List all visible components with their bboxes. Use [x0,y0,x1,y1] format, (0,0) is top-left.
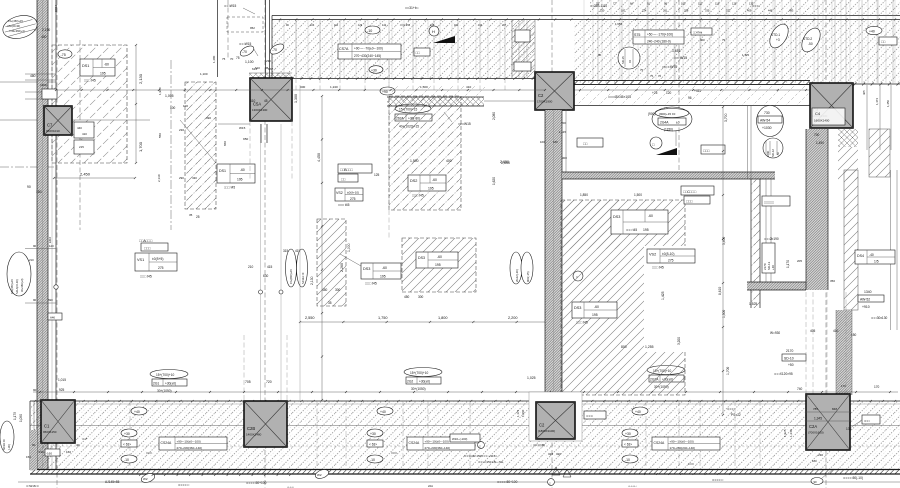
svg-text:130: 130 [846,427,852,431]
leader strip C to DS3 [340,254,361,266]
box W16 [450,434,480,442]
svg-text:300: 300 [418,295,424,299]
svg-text:15+(450)+15: 15+(450)+15 [10,279,14,294]
svg-text:100: 100 [183,104,188,108]
centerline grid X1 [56,0,58,488]
vertical strip B hatch [185,82,216,209]
svg-text:1,325: 1,325 [742,53,749,57]
ellipse -70 a [239,44,256,58]
label box parking A [141,243,168,251]
svg-text:90: 90 [27,185,31,189]
circle SD-12 [763,138,783,158]
svg-text:2G12(-30): 2G12(-30) [515,269,519,282]
svg-text:C7: C7 [47,123,53,128]
svg-text:1,800: 1,800 [438,316,448,320]
svg-text:1,240: 1,240 [789,429,793,437]
svg-text:□□□□: □□□□ [752,4,760,8]
C5A edge projections [249,121,251,180]
svg-text:1/5: 1/5 [874,260,879,264]
column C2B [244,401,287,447]
svg-text:190: 190 [39,450,44,454]
svg-text:2,450: 2,450 [80,172,91,177]
svg-text:+90: +90 [382,90,388,94]
svg-text:AW-54: AW-54 [760,119,770,123]
svg-text:2G4A: 2G4A [660,121,669,125]
cluster 2G12 left of wall [510,252,522,284]
svg-text:195: 195 [592,313,598,317]
svg-text:195: 195 [100,72,106,76]
top band bottom edge left [272,78,535,80]
svg-text:613: 613 [252,67,257,71]
label box parking C [684,196,710,204]
top band hatch above right [590,0,900,15]
wall tick dims left [25,248,56,250]
svg-text:□□□ t45: □□□ t45 [84,79,96,83]
svg-text:126: 126 [732,2,737,6]
table DS3d [572,302,617,318]
svg-text:+40: +40 [771,265,775,270]
svg-text:VS2: VS2 [336,191,343,195]
top band bottom edge mid [574,80,810,82]
table DS3 mid-inner [416,252,458,268]
svg-text:150: 150 [600,9,605,13]
svg-text:□□25S-1110: □□25S-1110 [590,4,607,8]
svg-text:75: 75 [722,38,726,42]
table DS3 left [361,263,401,279]
svg-text:76: 76 [658,74,662,78]
svg-text:±0(δ+5): ±0(δ+5) [152,257,163,261]
table VS1 [135,253,177,271]
svg-text:2,190: 2,190 [42,28,50,32]
svg-text:270~230(360~140): 270~230(360~140) [177,446,203,450]
svg-text:1,175: 1,175 [13,412,17,420]
svg-text:40: 40 [76,443,80,447]
svg-text:STD-1: STD-1 [771,33,780,37]
box fujo [862,415,880,424]
hatch patch right upper [869,129,890,177]
svg-text:848: 848 [832,407,837,411]
svg-text:□□□ t=150 15L~70L: □□□ t=150 15L~70L [478,460,504,464]
ellipse +40 band [632,407,648,415]
svg-text:□A1(±0-30): □A1(±0-30) [7,24,20,28]
ellipse SD-15 [618,47,640,69]
svg-text:275: 275 [350,197,356,201]
svg-text:119: 119 [715,2,720,6]
svg-text:180: 180 [553,140,558,144]
svg-text:□□□ t45: □□□ t45 [140,275,152,279]
svg-text:+40: +40 [380,410,386,414]
svg-text:430: 430 [192,176,197,180]
left edge stamp 2 [7,252,31,296]
svg-text:275: 275 [158,266,164,270]
circle a-mid [573,271,583,281]
svg-text:270~430(240~145): 270~430(240~145) [354,54,381,58]
svg-text:950X1150: 950X1150 [43,430,57,434]
dashed detail rect [227,17,263,32]
svg-text:□□□ t45: □□□ t45 [626,228,637,232]
table CS24A right [652,437,720,450]
svg-text:483: 483 [789,9,794,13]
svg-text:□□□□□50(-10): □□□□□50(-10) [843,476,863,480]
svg-text:AW-52: AW-52 [860,298,870,302]
204A stem [675,131,677,146]
svg-text:1,170: 1,170 [786,260,790,268]
svg-text:C2: C2 [538,93,544,98]
svg-text:1,345: 1,345 [814,417,822,421]
svg-text:CS24A: CS24A [161,441,172,445]
svg-text:96: 96 [598,53,602,57]
svg-text:< 63>: < 63> [123,443,131,447]
svg-text:W15: W15 [239,126,246,130]
svg-text:120: 120 [49,244,54,248]
svg-text:+40: +40 [635,410,641,414]
svg-text:70: 70 [230,57,234,61]
svg-text:±0(δ+10): ±0(δ+10) [347,191,359,195]
svg-text:W16~(-100): W16~(-100) [452,437,467,441]
svg-text:390: 390 [206,116,211,120]
svg-text:□□□ t45: □□□ t45 [576,321,588,325]
svg-text:□□□: □□□ [144,247,151,251]
svg-text:±0: ±0 [628,60,632,63]
svg-text:-60: -60 [382,266,387,270]
grid dashed x679 [678,0,680,179]
svg-text:±0(δ-10): ±0(δ-10) [662,252,674,256]
svg-text:CS7A: CS7A [339,47,349,51]
bottom band inner line [30,445,900,447]
svg-text:446: 446 [768,9,773,13]
svg-text:261: 261 [663,9,668,13]
box shared toilet [762,196,790,206]
svg-text:181: 181 [454,24,459,27]
svg-text:900(-15): 900(-15) [526,271,530,282]
svg-text:75: 75 [640,68,644,72]
svg-text:45: 45 [264,99,268,103]
left edge stamp 3 [0,421,14,453]
column C1 [41,400,75,443]
top band bottom edge right [853,83,900,85]
bottom band hatch [30,401,900,469]
centerline X3 (C2) [551,0,553,488]
svg-text:1,373: 1,373 [875,98,879,105]
svg-text:1,850: 1,850 [580,193,588,197]
svg-text:1,300: 1,300 [294,94,298,103]
svg-text:DS2: DS2 [410,179,417,183]
svg-text:410: 410 [833,329,839,333]
svg-text:15+(800)+15: 15+(800)+15 [289,269,293,284]
svg-text:30+(1050): 30+(1050) [411,387,426,391]
svg-text:□□□□W75: □□□□W75 [662,65,677,69]
bottom band top line [30,400,900,402]
svg-text:415: 415 [267,265,273,269]
svg-text:□□□□□○: □□□□□○ [712,478,724,482]
svg-text:195: 195 [435,263,441,267]
svg-text:□□□2b190: □□□2b190 [764,237,779,241]
svg-text:180: 180 [36,190,42,194]
C2B edge projections [243,335,245,401]
ellipse +30 band [367,429,383,437]
svg-text:705: 705 [245,380,251,384]
ellipse STD-1 [766,21,792,51]
svg-text:950: 950 [243,137,248,141]
svg-text:210: 210 [29,258,34,262]
svg-text:590: 590 [48,298,53,302]
svg-text:240~240 (180-0): 240~240 (180-0) [647,40,671,44]
svg-text:230: 230 [818,453,823,457]
svg-text:W2: W2 [143,477,148,481]
label box sharo [338,174,358,182]
svg-text:C1: C1 [44,424,50,429]
svg-text:270~230(360~140): 270~230(360~140) [425,446,451,450]
svg-text:1,650: 1,650 [615,22,622,26]
svg-text:550: 550 [158,133,162,138]
ellipse -10 [365,26,380,34]
svg-text:4,450: 4,450 [317,153,321,162]
verticals above C2A [805,292,807,395]
svg-text:30+360(+3): 30+360(+3) [20,278,24,292]
svg-text:+30(±0): +30(±0) [419,380,430,384]
svg-text:2G2: 2G2 [407,380,413,384]
box DS4 [855,250,895,264]
svg-text:SD-15: SD-15 [621,56,625,64]
204A outer ellipse [652,107,692,131]
mountain circle [650,137,662,149]
svg-text:1,500: 1,500 [634,193,642,197]
column C7 [44,106,72,135]
svg-text:DS1: DS1 [82,64,89,68]
svg-text:-160: -160 [46,452,52,456]
svg-text:(400): (400) [40,83,47,87]
hatch area DS3 mid [402,238,476,292]
tag cluster 2G1 [150,370,188,379]
svg-text:□□A□□□: □□A□□□ [139,239,153,243]
svg-text:8,610: 8,610 [718,287,722,295]
top band left edge vertical [271,16,273,79]
ellipse -70 b [269,42,286,56]
svg-text:< 63>: < 63> [624,443,632,447]
svg-text:105: 105 [681,2,686,6]
svg-text:N11A(±0-30): N11A(±0-30) [15,279,19,294]
svg-text:1,525: 1,525 [749,302,757,306]
ellipse -10 band [622,455,638,463]
svg-text:VS1: VS1 [137,258,144,262]
svg-text:350: 350 [830,279,835,283]
svg-text:2,260: 2,260 [340,263,344,272]
svg-text:150: 150 [26,455,31,459]
C2 bottom collar [529,392,582,441]
svg-text:925: 925 [59,388,65,392]
hatch area upper-left slab [52,45,127,163]
svg-text:187: 187 [621,9,626,13]
svg-text:+90~-10(±0~-100): +90~-10(±0~-100) [670,440,694,444]
svg-text:700: 700 [561,121,566,125]
svg-text:75: 75 [222,57,226,61]
svg-text:C2A: C2A [809,424,817,429]
toilet wall upper stub [747,106,749,179]
svg-text:AJ145×55: AJ145×55 [105,480,120,484]
tag cluster 204A [655,109,689,118]
svg-text:440: 440 [77,126,82,130]
svg-text:160: 160 [66,450,71,454]
centerline X2 (C5A/C2B) [264,0,266,488]
ellipse +40 band [377,407,393,415]
svg-text:N01A ±0: N01A ±0 [2,439,6,450]
svg-text:75: 75 [236,56,240,60]
svg-text:1,700: 1,700 [726,367,730,375]
svg-text:E416: E416 [48,236,52,243]
svg-text:□□□: □□□ [864,419,870,423]
dim line y322 [300,321,560,323]
bottom-left corner wall [29,401,31,470]
svg-text:120: 120 [666,91,672,95]
ellipse -10 band [121,455,137,463]
band tick row top [279,18,281,20]
svg-text:□□+: □□+ [82,437,88,441]
svg-text:730: 730 [764,111,770,115]
svg-text:170: 170 [874,385,880,389]
svg-text:1,115: 1,115 [559,130,566,134]
svg-text:1,005: 1,005 [165,94,174,98]
svg-text:129: 129 [358,24,363,27]
grid line y120 left [0,119,150,121]
svg-text:C2B: C2B [247,426,255,431]
svg-text:35: 35 [189,213,193,217]
svg-text:DS1: DS1 [219,169,226,173]
svg-text:298: 298 [684,9,689,13]
right edge strip [866,85,868,150]
table DS1 second [217,164,255,183]
svg-text:400: 400 [700,38,705,42]
svg-text:STD-2: STD-2 [803,37,812,41]
svg-text:□□□ t45: □□□ t45 [365,282,377,286]
svg-text:-40: -40 [869,253,874,257]
svg-text:S75: S75 [634,33,640,37]
svg-text:450: 450 [404,295,410,299]
strip B centerline [170,60,172,230]
svg-text:+411: +411 [694,89,701,93]
svg-text:□□□□□: □□□□□ [628,484,637,488]
svg-text:□□□□□50+100: □□□□□50+100 [497,480,518,484]
svg-text:2,650: 2,650 [501,161,510,165]
svg-text:-10: -10 [124,458,129,462]
table DS2 [408,175,446,191]
svg-text:-60: -60 [594,305,599,309]
svg-text:□□□: □□□ [146,451,152,455]
svg-text:1,000: 1,000 [347,243,351,252]
svg-text:224: 224 [642,9,647,13]
svg-text:□□□□□50+100: □□□□□50+100 [246,481,267,485]
svg-text:1,750: 1,750 [378,316,388,320]
svg-text:+30(±0): +30(±0) [165,382,176,386]
column C2 top [535,72,574,110]
tag cluster 2G2 [404,368,442,377]
svg-text:22A: 22A [428,484,433,488]
svg-text:W=930: W=930 [770,331,780,335]
svg-text:-60: -60 [240,168,245,172]
crosshatch strip above C5A [249,73,292,79]
wall strip dark upper B zone [387,97,484,106]
centerline DS2 [388,60,390,240]
circled 90 below C2A [811,478,823,485]
centerline X4 (C4/C2A) [825,0,827,488]
svg-text:DS3: DS3 [363,267,370,271]
ellipse -10 band [367,455,383,463]
svg-text:1,655: 1,655 [672,49,681,53]
C2A top dims [806,411,850,413]
svg-text:950X1010: 950X1010 [46,129,60,133]
svg-text:1,255: 1,255 [645,345,654,349]
boxes on dense strip [515,30,530,42]
svg-text:900: 900 [300,85,305,89]
column C4 [810,83,853,128]
svg-text:□□□: □□□ [391,451,397,455]
svg-text:□□31+b○: □□31+b○ [405,6,419,10]
svg-text:112: 112 [698,2,703,6]
svg-text:194: 194 [478,24,483,27]
svg-text:□□□: □□□ [688,462,694,466]
svg-text:DS4: DS4 [857,254,864,258]
svg-text:+30: +30 [625,432,631,436]
circled H [429,26,439,36]
svg-text:1300X1300: 1300X1300 [252,108,268,112]
pavement line [18,481,900,483]
table VS2b [647,249,695,263]
svg-text:150: 150 [851,333,857,337]
grid line y82 left [0,81,56,83]
ramp edge lines [260,124,262,401]
svg-text:195: 195 [428,187,434,191]
svg-text:A46: A46 [50,316,55,320]
svg-text:+50 — -170(+100): +50 — -170(+100) [647,33,673,37]
circle ri [478,442,485,449]
band vertical joints [295,20,297,78]
table CS24A mid [407,437,475,450]
top band hatch right segment [810,20,900,83]
svg-text:400: 400 [41,35,47,39]
black triangle marker [433,36,455,43]
centerline X1b [79,40,81,230]
svg-text:400: 400 [446,159,452,163]
svg-text:15+(450)+15: 15+(450)+15 [8,19,23,23]
svg-text:-10: -10 [625,458,630,462]
box 63 band [622,440,638,447]
svg-text:3,200: 3,200 [677,337,681,345]
tick row left y74 [25,73,56,75]
label box upper C type [681,186,714,195]
svg-text:□□47Hk: □□47Hk [693,31,703,35]
svg-text:1,500: 1,500 [722,310,726,318]
svg-text:1,240: 1,240 [330,85,338,89]
stamp ellipse top-left [0,12,40,42]
svg-text:785: 785 [813,407,818,411]
svg-text:DS3: DS3 [418,256,425,260]
svg-text:□□□W15: □□□W15 [239,42,252,46]
svg-text:(700X1600): (700X1600) [808,431,824,435]
bottom band crossing dashes [129,401,131,469]
ellipse +40 band [131,407,147,415]
svg-text:860: 860 [223,141,227,146]
svg-text:(900)+15 ±0: (900)+15 ±0 [659,112,676,116]
svg-text:-75: -75 [61,53,66,57]
svg-text:H: H [432,29,435,34]
svg-text:2,130: 2,130 [310,276,314,285]
svg-text:230: 230 [179,128,184,132]
svg-text:116: 116 [334,24,339,27]
svg-text:410: 410 [82,132,87,136]
dim line y392 [33,391,898,393]
ellipse STD-2 [798,25,824,55]
svg-text:C4: C4 [815,111,821,116]
svg-text:C2: C2 [539,423,545,428]
